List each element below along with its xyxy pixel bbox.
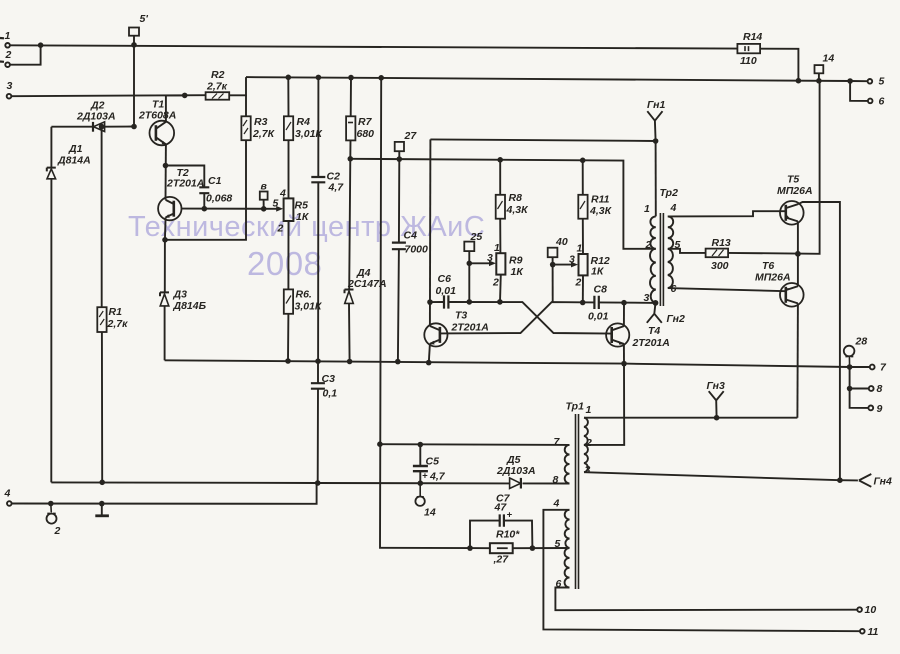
svg-text:С8: С8: [594, 284, 608, 296]
terminal 1: [5, 30, 11, 48]
Tr1 winding 1-2-3: [584, 418, 588, 473]
resistor R4: [284, 77, 324, 198]
junction dot 5' on top line: [131, 42, 137, 48]
test point 25: [464, 231, 482, 302]
wire T2 emitter down to D3: [164, 217, 167, 292]
wire line-158 (27 node line): [350, 159, 656, 249]
svg-text:2: 2: [5, 49, 12, 61]
svg-text:1: 1: [5, 30, 11, 42]
svg-text:2,7к: 2,7к: [206, 81, 228, 93]
svg-text:25: 25: [470, 231, 483, 243]
svg-text:3: 3: [569, 254, 575, 266]
wire T4 emitter down: [623, 344, 625, 364]
svg-text:+: +: [507, 510, 513, 521]
svg-text:4,7: 4,7: [328, 182, 345, 194]
svg-text:5': 5': [140, 13, 149, 25]
resistor R7: [346, 78, 374, 159]
wire Tr2 pin5 to R13: [668, 249, 706, 253]
svg-text:С5: С5: [426, 456, 440, 468]
svg-text:3: 3: [585, 464, 591, 476]
svg-text:2Т201А: 2Т201А: [451, 322, 489, 334]
junction dot C6 line left end: [427, 299, 433, 305]
test point 27: [395, 130, 418, 159]
svg-text:2Д103А: 2Д103А: [496, 465, 536, 477]
wire C6 line with diagonal to T4 base: [430, 302, 612, 334]
wire R2 right to rail2 corner: [229, 77, 246, 95]
svg-text:МП26А: МП26А: [755, 272, 791, 284]
svg-text:4,3К: 4,3К: [589, 205, 613, 217]
wire terminal3 to R2: [11, 95, 205, 96]
test point 40: [548, 236, 568, 302]
Tr2 secondary winding 4-5-6: [668, 216, 673, 288]
svg-text:Гн2: Гн2: [667, 313, 686, 325]
wire R13 to emitter junction and up to point14 line: [728, 81, 820, 254]
svg-text:R5: R5: [295, 200, 309, 212]
junction dots on C8 line: [580, 300, 658, 306]
svg-text:0,01: 0,01: [588, 311, 609, 323]
junction dot T5/T6 emitters R13: [795, 251, 801, 257]
test point 14 (circle): [415, 483, 435, 518]
junction dot tp2 branch: [48, 501, 54, 507]
jack Гн4: [859, 474, 892, 488]
resistor R14: [737, 31, 762, 67]
svg-text:2008: 2008: [247, 245, 322, 282]
svg-text:0,01: 0,01: [436, 285, 457, 297]
capacitor C1: [166, 166, 233, 209]
wire T6 collector down to Tr1 pin1 line: [796, 303, 799, 417]
test point 5': [129, 13, 148, 36]
svg-text:1К: 1К: [511, 266, 525, 278]
jack Гн1: [647, 99, 666, 141]
svg-text:в: в: [261, 181, 268, 193]
junction dot T2 emitter / R3 return: [162, 237, 168, 243]
svg-text:1: 1: [586, 404, 592, 416]
wire Tr1 pin1 line to T6 collector: [584, 417, 797, 419]
svg-text:С6: С6: [438, 273, 452, 285]
wire R10 line: [470, 547, 570, 549]
wire D5 / common line y483: [51, 482, 569, 483]
test point 28: [844, 336, 868, 368]
ground (chassis): [95, 504, 109, 516]
Tr2 primary winding 1-2-3: [650, 216, 656, 303]
svg-text:Гн3: Гн3: [707, 380, 726, 392]
svg-text:14: 14: [424, 507, 436, 519]
terminal 6 with branch: [850, 81, 884, 108]
svg-text:0,068: 0,068: [206, 193, 232, 205]
resistor R8: [496, 160, 529, 253]
wire R5 bottom to R6: [287, 221, 290, 361]
terminal 10: [857, 604, 876, 616]
svg-text:2: 2: [585, 437, 592, 449]
svg-text:2Т201А: 2Т201А: [166, 178, 204, 190]
svg-text:3: 3: [487, 252, 493, 264]
test point 14 (square): [815, 53, 835, 81]
svg-text:11: 11: [868, 626, 879, 638]
svg-text:9: 9: [877, 403, 883, 415]
svg-text:2: 2: [645, 239, 652, 251]
svg-text:5: 5: [879, 76, 885, 88]
wire rail361 (emitter rail): [165, 360, 870, 367]
svg-text:R9: R9: [509, 255, 523, 267]
capacitor C4: [392, 159, 428, 362]
svg-text:2: 2: [492, 277, 499, 289]
wire R9 wiper arrow: [469, 252, 496, 266]
wire rail2 (second supply line): [246, 77, 868, 81]
svg-text:Т3: Т3: [455, 310, 467, 322]
svg-text:3: 3: [7, 80, 13, 92]
svg-text:2,7К: 2,7К: [252, 128, 276, 140]
svg-text:R13: R13: [712, 237, 731, 249]
transformer Tr1: [553, 401, 593, 591]
svg-text:1К: 1К: [296, 211, 310, 223]
wire Tr1 pin4 to terminal 11: [543, 510, 860, 631]
wire T3 emitter to rail: [429, 344, 430, 363]
resistor R6: [284, 289, 323, 314]
capacitor C2: [311, 77, 344, 361]
svg-text:4,7: 4,7: [429, 471, 446, 483]
svg-text:Т6: Т6: [762, 260, 774, 272]
jack Гн2: [647, 303, 685, 325]
svg-text:Тр1: Тр1: [566, 401, 585, 413]
svg-text:,27: ,27: [493, 554, 510, 566]
svg-text:МП26А: МП26А: [777, 185, 813, 197]
svg-text:R3: R3: [254, 116, 268, 128]
junction dot terminals 1-2: [38, 42, 44, 48]
Tr1 core: [576, 414, 579, 589]
wire T5 collector right and down: [798, 202, 840, 480]
svg-text:Т4: Т4: [648, 325, 660, 337]
svg-text:5: 5: [555, 538, 561, 550]
terminal 7: [850, 362, 887, 374]
svg-text:2: 2: [54, 525, 61, 537]
capacitor C7 branch (polarized): [470, 493, 532, 549]
junction dot 25 stem / R9 wiper: [467, 261, 473, 267]
zener D4: [345, 159, 387, 362]
wire terminals 8-9 branch: [850, 367, 869, 408]
svg-text:R2: R2: [211, 69, 225, 81]
terminal 9: [868, 403, 882, 415]
junction dot pin7 line start: [377, 441, 383, 447]
terminal 8: [850, 383, 883, 395]
wire T5 emitter down to junction: [797, 221, 799, 286]
junction dot R1 bottom: [99, 480, 105, 486]
svg-text:2Т608А: 2Т608А: [138, 110, 176, 122]
svg-text:4: 4: [279, 188, 286, 200]
svg-text:R8: R8: [509, 192, 523, 204]
zener D3: [160, 289, 207, 361]
svg-text:R6.: R6.: [296, 289, 312, 301]
junction dot ground branch: [99, 501, 105, 507]
wire terminal4 line: [12, 483, 317, 504]
resistor R11: [578, 160, 612, 254]
transistor T6 МП26А: [755, 260, 804, 307]
svg-text:8: 8: [553, 474, 559, 486]
wire Tr1 pin6 to terminal 10: [555, 588, 857, 611]
wire x380 vertical (rail2 down to R10 line): [380, 78, 470, 548]
svg-text:2Т201А: 2Т201А: [632, 337, 670, 349]
wire Tr1 pin3 line to Гн4: [584, 472, 858, 480]
svg-text:680: 680: [357, 128, 375, 140]
svg-text:С3: С3: [322, 373, 336, 385]
svg-text:Д1: Д1: [68, 143, 83, 155]
svg-text:2Д103А: 2Д103А: [76, 111, 116, 123]
svg-text:10: 10: [865, 604, 877, 616]
wire T4 emitter node down to Tr1 pin2: [584, 364, 624, 445]
svg-text:0,1: 0,1: [323, 388, 338, 400]
zener D1: [47, 127, 91, 483]
junction dots on line-158: [348, 156, 586, 163]
svg-text:4: 4: [553, 498, 560, 510]
svg-text:28: 28: [855, 336, 868, 348]
junction dots on rail2: [286, 75, 853, 84]
terminal 3: [7, 80, 13, 98]
junction dot T1 emitter / C1 branch: [163, 163, 169, 169]
wire T3 base line with diagonal to C8 line: [440, 302, 656, 333]
capacitor C8: [588, 284, 609, 323]
test point в: [260, 181, 268, 209]
terminal 11: [860, 626, 879, 638]
Tr1 winding 4-5-6: [565, 510, 570, 588]
svg-text:R7: R7: [358, 116, 373, 128]
resistor R1: [97, 127, 128, 483]
svg-text:27: 27: [404, 130, 418, 142]
svg-text:4: 4: [4, 488, 11, 500]
junction dots on rail361: [285, 358, 852, 370]
wire T1 collector up to terminal3 line: [166, 95, 185, 121]
transistor T4 2T201A: [606, 323, 670, 349]
junction dot D2 / T1 base node: [131, 124, 137, 130]
junction dot 40 stem / R12 wiper: [550, 262, 556, 268]
svg-text:47: 47: [494, 502, 508, 514]
junction dot Гн1 on y139 line: [653, 138, 659, 144]
Tr1 winding 7-8: [565, 445, 570, 484]
svg-text:1: 1: [494, 242, 500, 254]
capacitor C3: [311, 361, 337, 483]
svg-text:14: 14: [823, 53, 835, 65]
wire T2 base to wiper line: [182, 208, 278, 210]
svg-text:Д814Б: Д814Б: [173, 300, 207, 312]
junction dot C5 bottom: [418, 480, 424, 486]
svg-text:R4: R4: [297, 116, 311, 128]
junction dot test-square-в stem: [261, 206, 267, 212]
wire terminal2 branch up: [10, 45, 41, 64]
svg-text:2,7к: 2,7к: [107, 318, 129, 330]
svg-text:Т5: Т5: [787, 174, 799, 186]
junction dot Tr2 pin3 node: [653, 300, 659, 306]
svg-text:+: +: [422, 471, 428, 482]
wire pin7 line: [380, 443, 570, 446]
transformer Tr2: [644, 187, 681, 306]
wire Гн1 node down to Tr2 pin1: [655, 141, 657, 216]
junction dot R1 top on D2 line: [99, 124, 105, 130]
svg-text:7000: 7000: [405, 244, 429, 256]
junction dot C1 bottom on wiper line: [202, 206, 208, 212]
svg-text:Гн4: Гн4: [874, 476, 893, 488]
junction dot T5 collector line on pin3 line: [837, 477, 843, 483]
svg-text:3: 3: [644, 292, 650, 304]
svg-text:2: 2: [575, 277, 582, 289]
svg-text:4: 4: [670, 202, 677, 214]
svg-text:300: 300: [711, 260, 729, 272]
jack Гн3: [707, 380, 726, 418]
scan edge marks: [0, 38, 4, 62]
resistor R10: [490, 529, 520, 566]
svg-text:R11: R11: [591, 194, 610, 206]
svg-text:R14: R14: [743, 31, 762, 43]
svg-text:Д814А: Д814А: [57, 155, 91, 167]
wire y139 line (T3 collector to Gn1): [430, 139, 655, 141]
wire T3 collector vertical: [429, 139, 432, 325]
capacitor C6: [436, 273, 457, 309]
svg-text:R10*: R10*: [496, 529, 520, 541]
diode D2: [51, 100, 134, 132]
svg-text:5: 5: [273, 198, 279, 210]
potentiometer R9: [492, 242, 524, 302]
diode D5: [496, 454, 536, 489]
svg-text:1: 1: [577, 243, 583, 255]
svg-text:Гн1: Гн1: [647, 99, 666, 111]
wire terminal1 to R14 (top line): [10, 45, 737, 48]
transistor T5 МП26А: [777, 174, 813, 225]
svg-text:1: 1: [644, 203, 650, 215]
junction dot T1 collector on terminal3 line: [182, 93, 188, 99]
svg-text:4,3К: 4,3К: [506, 204, 530, 216]
svg-text:8: 8: [877, 383, 883, 395]
svg-text:40: 40: [555, 236, 568, 248]
potentiometer R12: [575, 243, 610, 303]
capacitor C5 (polarized): [413, 445, 446, 484]
resistor R2: [206, 69, 230, 100]
wiper arrow into R5: [276, 206, 283, 212]
terminal 5: [868, 76, 885, 88]
watermark: [128, 211, 485, 282]
resistor R13: [706, 237, 731, 272]
svg-text:С4: С4: [404, 230, 418, 242]
junction dot C3 bottom / corner: [315, 480, 321, 486]
Tr2 core: [660, 213, 663, 306]
transistor T2 2T201A: [158, 167, 204, 220]
svg-text:С1: С1: [208, 175, 222, 187]
junction dot Гн3 stem: [714, 415, 720, 421]
transistor T3 2T201A: [424, 310, 489, 347]
svg-text:Тр2: Тр2: [660, 187, 679, 199]
svg-text:1К: 1К: [591, 266, 605, 278]
junction dot R10 right node: [530, 545, 536, 551]
svg-text:2: 2: [277, 223, 284, 235]
svg-text:110: 110: [740, 55, 757, 67]
wire R14 right down to rail2: [760, 49, 798, 81]
wire T1 emitter down: [165, 144, 167, 200]
wire Tr2 pin6 to T6 base: [668, 288, 786, 291]
svg-text:Д3: Д3: [173, 289, 188, 301]
resistor R3 and vertical: [165, 95, 276, 240]
svg-text:R1: R1: [109, 306, 123, 318]
junction dot C5 top: [418, 442, 424, 448]
svg-text:6: 6: [879, 96, 885, 108]
junction dots on C6 line: [467, 299, 503, 305]
test point 2 (circle): [47, 504, 61, 538]
wire T4 collector up: [623, 303, 625, 326]
wire R12 wiper arrow: [553, 254, 578, 268]
junction dot terminal 8 branch: [847, 386, 853, 392]
wire 5' stem down to D2 node: [133, 36, 135, 127]
potentiometer R5: [273, 188, 310, 235]
transistor T1 2T608A: [138, 99, 176, 146]
wire Tr2 pin4 to T5 base: [668, 211, 786, 216]
terminal 4: [4, 488, 12, 506]
terminal 2: [5, 49, 12, 67]
junction dot R10 left node: [467, 545, 473, 551]
